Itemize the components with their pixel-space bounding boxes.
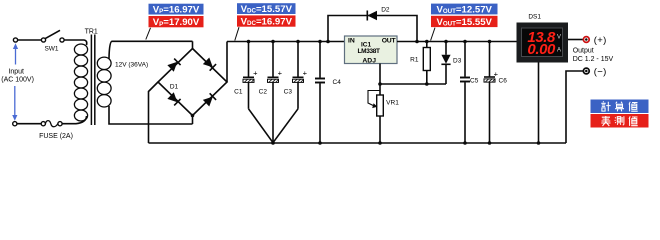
label (+) [594, 35, 607, 46]
svg-text:LM338T: LM338T [358, 48, 380, 55]
svg-text:D2: D2 [381, 6, 390, 13]
svg-text:0.00: 0.00 [527, 41, 556, 58]
label DS1 [528, 14, 541, 21]
potentiometer VR1 [368, 84, 383, 143]
node D2 right junction [415, 40, 419, 44]
node C4 top junction [318, 40, 322, 44]
transformer TR1 secondary coil [97, 57, 111, 107]
svg-text:OUT: OUT [382, 38, 397, 45]
wire ground rail [149, 142, 567, 144]
node D3 top junction [444, 40, 448, 44]
input arrow up (blue) [13, 43, 18, 64]
wire fuse to transformer primary bottom [62, 116, 86, 124]
label Output [573, 47, 594, 54]
transformer TR1 core [91, 35, 94, 126]
resistor R1 [423, 42, 430, 85]
svg-text:A: A [557, 48, 561, 54]
svg-text:VR1: VR1 [386, 100, 399, 107]
node C2 top junction [271, 40, 275, 44]
label TR1 [85, 29, 98, 36]
label D2 [381, 6, 390, 13]
label IC1 [361, 41, 372, 48]
svg-text:12V (36VA): 12V (36VA) [115, 61, 148, 68]
wire IC ADJ pin [379, 64, 381, 85]
label C3 plus [303, 69, 308, 78]
diode D2 [367, 11, 377, 21]
capacitor C3 [273, 42, 304, 143]
svg-text:C2: C2 [259, 89, 268, 96]
svg-text:(+): (+) [594, 35, 607, 46]
switch SW1 [41, 30, 64, 42]
label box VOUT measured (red) [431, 16, 498, 28]
diode D1 bottom-right element [203, 93, 216, 106]
svg-text:D3: D3 [453, 58, 462, 65]
svg-text:C1: C1 [234, 89, 243, 96]
label C2 plus [278, 69, 283, 78]
label C1 plus [253, 69, 258, 78]
label C2 [259, 89, 268, 96]
wire input top to SW1 [18, 39, 42, 41]
label box VDC measured (red) [237, 15, 296, 27]
node C5 top junction [463, 40, 467, 44]
label VR1 [386, 100, 399, 107]
label C1 [234, 89, 243, 96]
legend box calculated (blue) 計算値 [591, 100, 649, 114]
svg-text:+: + [303, 69, 308, 78]
label (-) [594, 67, 607, 78]
label box VP calculated (blue) [149, 4, 204, 16]
svg-text:D1: D1 [170, 84, 179, 91]
node DS1 ground junction [537, 141, 541, 145]
wire DC+ rail bridge to IC IN [227, 41, 345, 43]
input label Input (AC 100V) [1, 69, 34, 84]
node C6 ground junction [488, 141, 492, 145]
rectifier bridge D1 outline [158, 49, 227, 116]
wire bridge right stub [226, 42, 228, 83]
label FUSE (2A) [39, 133, 73, 140]
terminal output plus [583, 37, 589, 43]
node D2 left junction [326, 40, 330, 44]
wire bridge bottom stub [192, 116, 194, 125]
legend text 計算値 (drawn glyphs) [601, 101, 637, 111]
capacitor C2 [268, 42, 279, 143]
svg-text:C3: C3 [284, 89, 293, 96]
svg-text:(−): (−) [594, 67, 607, 78]
node C4 ground junction [318, 141, 322, 145]
label C4 [333, 79, 342, 86]
node R1 top junction [425, 40, 429, 44]
label ADJ pin [362, 58, 376, 65]
label LM338T [358, 48, 380, 55]
wire input bottom to fuse [17, 123, 41, 125]
svg-text:+: + [278, 69, 283, 78]
wire secondary bottom lead [109, 106, 193, 124]
leader VP to rail [146, 28, 151, 40]
fuse FUSE (2A) [41, 121, 62, 127]
leader VOUT to rail [431, 28, 435, 41]
svg-text:C4: C4 [333, 79, 342, 86]
svg-text:DS1: DS1 [528, 14, 541, 21]
wire SW1 to transformer primary top [64, 40, 87, 45]
label C5 [470, 77, 479, 84]
wire IC OUT rail to DS1 [397, 41, 517, 43]
node input top terminal [13, 38, 17, 42]
legend box measured (red) 実測値 [591, 114, 649, 128]
wire DS1 to plus terminal [568, 39, 583, 41]
capacitor C6 [484, 42, 495, 144]
node bridge bottom junction [191, 114, 195, 118]
node C5 ground junction [463, 141, 467, 145]
svg-text:C6: C6 [499, 77, 508, 84]
label C3 [284, 89, 293, 96]
node R1 bottom junction [425, 82, 429, 86]
label OUT pin [382, 38, 397, 45]
wire bridge left corner to ground rail [149, 82, 159, 143]
label box VDC calculated (blue) [237, 3, 296, 15]
diode D1 top-right element [203, 57, 216, 70]
wire DS1 bottom to ground rail [538, 63, 540, 144]
label C6 plus [494, 70, 499, 79]
node C3 top junction [296, 40, 300, 44]
terminal output minus [583, 68, 589, 74]
capacitor C5 [460, 42, 470, 144]
node C6 top junction [488, 40, 492, 44]
regulator IC1 LM338T box [345, 36, 398, 64]
transformer TR1 primary coil [74, 44, 87, 121]
label D1 [170, 84, 179, 91]
svg-text:FUSE (2A): FUSE (2A) [39, 133, 73, 140]
wire secondary top lead to AC rail [109, 41, 193, 58]
label SW1 [44, 45, 58, 52]
wire bridge top stub [192, 41, 194, 48]
display DS1 panel meter [517, 23, 569, 63]
label C6 [499, 77, 508, 84]
diode D3 [441, 42, 450, 85]
svg-text:C5: C5 [470, 77, 479, 84]
svg-text:R1: R1 [410, 56, 419, 63]
svg-text:Input: Input [8, 69, 24, 76]
label 12V (36VA) [115, 61, 148, 68]
svg-text:V: V [557, 35, 561, 41]
wire D2 branch [328, 16, 417, 42]
legend text 実測値 (drawn glyphs) [601, 116, 637, 126]
label R1 [410, 56, 419, 63]
label D3 [453, 58, 462, 65]
wire minus terminal to ground rail [566, 71, 583, 143]
node input bottom terminal [13, 122, 17, 126]
node C1 top junction [247, 40, 251, 44]
svg-text:ADJ: ADJ [362, 58, 376, 65]
svg-text:DC 1.2 - 15V: DC 1.2 - 15V [573, 56, 614, 63]
label box VOUT calculated (blue) [431, 4, 498, 16]
node C1C2C3 ground junction [271, 141, 275, 145]
input arrow down (blue) [12, 86, 17, 121]
capacitor C4 [315, 42, 325, 144]
node ADJ junction [378, 82, 382, 86]
svg-text:+: + [253, 69, 258, 78]
svg-text:SW1: SW1 [44, 45, 58, 52]
label box VP measured (red) [149, 16, 204, 28]
svg-text:(AC 100V): (AC 100V) [1, 77, 34, 84]
wire ADJ line to R1 and D3 [380, 83, 446, 85]
node VR1 ground junction [378, 141, 382, 145]
diode D1 bottom-left element [167, 92, 180, 105]
diode D1 top-left element [167, 59, 180, 72]
leader VDC to rail [235, 27, 239, 40]
svg-text:IN: IN [348, 38, 355, 45]
capacitor C1 [243, 42, 273, 143]
label IN pin [348, 38, 355, 45]
label DC 1.2 - 15V [573, 56, 614, 63]
svg-text:TR1: TR1 [85, 29, 98, 36]
svg-text:Output: Output [573, 47, 594, 54]
